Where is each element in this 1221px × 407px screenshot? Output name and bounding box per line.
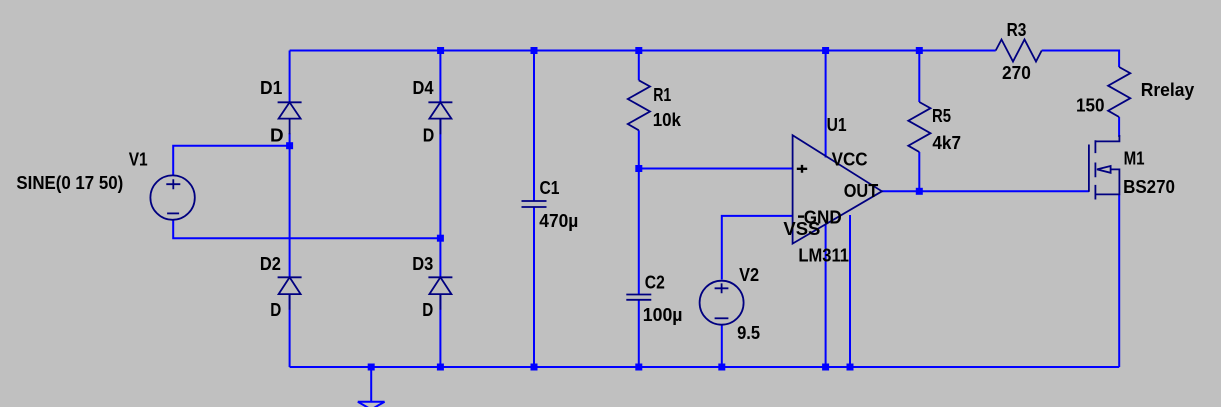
resistor R3 — [996, 40, 1042, 62]
svg-text:R1: R1 — [653, 85, 671, 105]
svg-text:9.5: 9.5 — [737, 323, 760, 343]
junction bottom rail ground — [368, 364, 375, 371]
wire bottom rail — [290, 366, 1120, 368]
svg-text:D: D — [423, 126, 435, 146]
junction bottom rail V2 — [718, 364, 725, 371]
svg-text:D: D — [270, 126, 284, 146]
junction top rail R1 — [635, 47, 642, 54]
op-amp U1 LM311 — [793, 135, 882, 243]
junction bottom rail GND — [847, 364, 854, 371]
svg-text:OUT: OUT — [844, 181, 879, 201]
junction top rail C1 — [531, 47, 538, 54]
wire D2 anode to bottom rail corner — [289, 294, 291, 367]
junction bottom rail C2 — [635, 364, 642, 371]
svg-text:4k7: 4k7 — [932, 133, 961, 153]
wire node to op-amp plus input — [639, 168, 793, 170]
wire node down to C2 top — [638, 169, 640, 295]
wire R1 top — [638, 51, 640, 81]
resistor R1 — [628, 80, 650, 130]
svg-text:BS270: BS270 — [1123, 177, 1175, 197]
capacitor C1 — [522, 201, 547, 207]
wire V2 plus to op-amp minus input — [722, 216, 793, 280]
junction node A — [286, 142, 293, 149]
wire U1 GND pin to bottom rail — [849, 215, 851, 367]
svg-text:D2: D2 — [260, 254, 281, 274]
wire D1 cathode to top rail — [289, 51, 291, 103]
wire R3 right to Rrelay top — [1042, 51, 1119, 68]
svg-text:D3: D3 — [412, 254, 433, 274]
diode D3 — [428, 277, 452, 310]
diode D1 — [278, 102, 302, 134]
svg-text:VSS: VSS — [783, 219, 820, 239]
svg-text:270: 270 — [1002, 63, 1031, 83]
diode D4 — [428, 102, 452, 134]
svg-text:D: D — [422, 300, 433, 320]
voltage source V2 — [700, 281, 744, 325]
resistor R5 — [908, 102, 930, 152]
svg-text:D1: D1 — [260, 78, 282, 98]
wire C1 top — [533, 51, 535, 202]
svg-text:C1: C1 — [540, 178, 560, 198]
svg-text:U1: U1 — [827, 115, 847, 135]
junction top rail R5 — [916, 47, 923, 54]
junction node B — [437, 235, 444, 242]
svg-text:R3: R3 — [1007, 20, 1027, 40]
svg-text:R5: R5 — [932, 106, 951, 126]
svg-text:100µ: 100µ — [643, 305, 683, 325]
wire D3 anode to bottom rail — [439, 294, 441, 367]
wire C2 bottom to rail — [638, 300, 640, 367]
junction top rail VCC — [822, 47, 829, 54]
junction OUT R5 node — [916, 188, 923, 195]
transistor M1 BS270 — [1089, 135, 1120, 200]
wire Rrelay bottom to M1 drain — [1118, 117, 1120, 137]
svg-text:Rrelay: Rrelay — [1141, 80, 1195, 100]
junction bottom rail D3 — [437, 364, 444, 371]
wire V1 bottom to node B — [173, 220, 440, 239]
wire U1 VSS pin to bottom rail — [825, 225, 827, 368]
diode D2 — [278, 277, 302, 310]
svg-text:C2: C2 — [645, 272, 665, 292]
wire V2 bottom to rail — [721, 326, 723, 368]
wire node A to D2 cathode — [289, 133, 291, 277]
wire top rail — [290, 50, 996, 52]
junction top rail D4 — [437, 47, 444, 54]
wire M1 source to bottom rail — [1118, 194, 1120, 367]
svg-text:VCC: VCC — [832, 150, 868, 170]
svg-text:V1: V1 — [129, 150, 148, 170]
svg-text:150: 150 — [1076, 96, 1105, 116]
wire U1 VCC pin to top rail — [825, 51, 827, 158]
svg-text:D4: D4 — [413, 78, 434, 98]
ground — [358, 367, 385, 407]
svg-text:LM311: LM311 — [798, 246, 849, 266]
wire R5 top — [918, 51, 920, 103]
voltage source V1 — [150, 175, 194, 219]
wire C1 bottom — [533, 207, 535, 367]
junction bottom rail VSS — [822, 364, 829, 371]
svg-text:10k: 10k — [653, 110, 682, 130]
wire U1 OUT to M1 gate — [882, 190, 1089, 192]
svg-text:SINE(0 17 50): SINE(0 17 50) — [16, 173, 123, 193]
wire R5 bottom to OUT node — [918, 152, 920, 191]
wire D4 anode through node B to D3 cathode — [439, 119, 441, 278]
wire R1 bottom to node — [638, 130, 640, 168]
wire V1 top to node A — [173, 146, 289, 175]
resistor Rrelay — [1108, 67, 1130, 117]
svg-text:M1: M1 — [1124, 149, 1145, 169]
wire D4 cathode to top rail — [439, 51, 441, 103]
junction R1 C2 plus-input node — [635, 165, 642, 172]
svg-text:470µ: 470µ — [539, 211, 578, 231]
junction bottom rail C1 — [531, 364, 538, 371]
svg-text:V2: V2 — [739, 265, 759, 285]
capacitor C2 — [626, 295, 651, 300]
svg-text:D: D — [270, 300, 281, 320]
